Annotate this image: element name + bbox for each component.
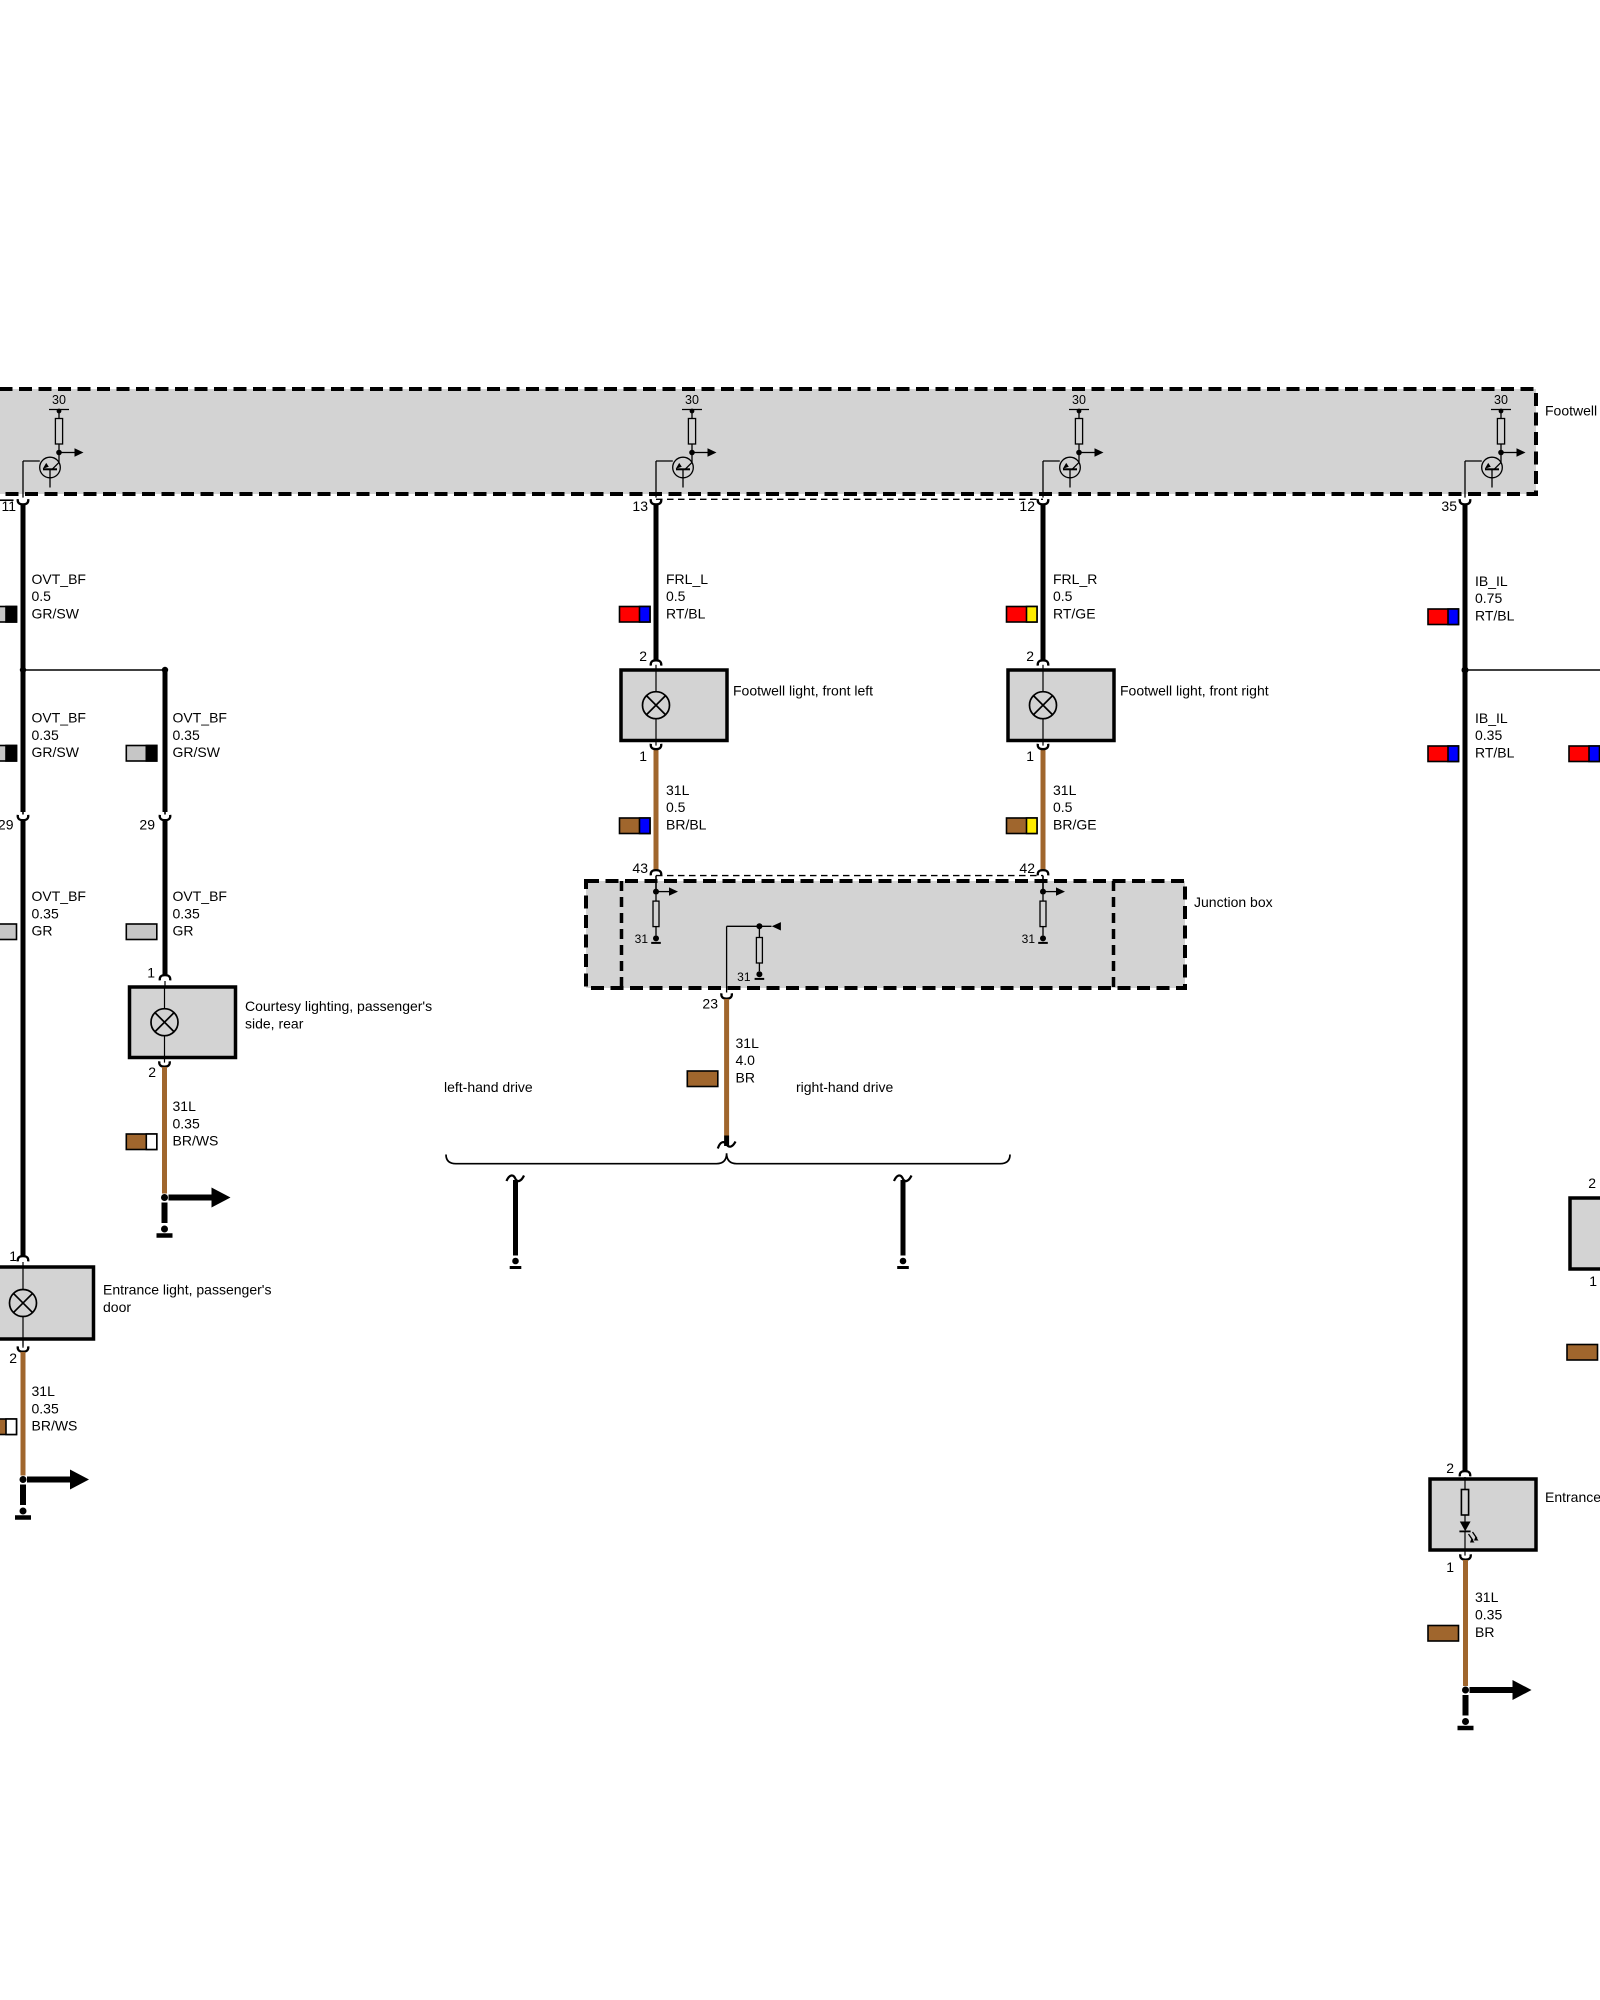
svg-text:1: 1 bbox=[9, 1248, 17, 1264]
svg-text:IB_IL: IB_IL bbox=[1475, 710, 1508, 726]
svg-text:31L: 31L bbox=[1053, 782, 1077, 798]
svg-text:4.0: 4.0 bbox=[736, 1052, 756, 1068]
svg-text:GR/SW: GR/SW bbox=[32, 744, 80, 760]
svg-text:2: 2 bbox=[639, 648, 647, 664]
svg-text:0.35: 0.35 bbox=[32, 905, 59, 921]
svg-text:0.5: 0.5 bbox=[1053, 799, 1073, 815]
svg-text:GR/SW: GR/SW bbox=[173, 744, 221, 760]
svg-text:0.35: 0.35 bbox=[173, 905, 200, 921]
svg-text:29: 29 bbox=[139, 817, 155, 833]
svg-text:31: 31 bbox=[737, 970, 751, 984]
svg-text:FRL_R: FRL_R bbox=[1053, 571, 1097, 587]
svg-text:Junction box: Junction box bbox=[1194, 894, 1273, 910]
svg-text:side, rear: side, rear bbox=[245, 1016, 304, 1032]
svg-text:30: 30 bbox=[1494, 393, 1508, 407]
svg-text:OVT_BF: OVT_BF bbox=[32, 571, 86, 587]
svg-text:left-hand drive: left-hand drive bbox=[444, 1079, 533, 1095]
svg-text:OVT_BF: OVT_BF bbox=[32, 710, 86, 726]
svg-text:31L: 31L bbox=[173, 1098, 197, 1114]
svg-text:31L: 31L bbox=[736, 1035, 760, 1051]
svg-text:IB_IL: IB_IL bbox=[1475, 573, 1508, 589]
svg-text:31L: 31L bbox=[666, 782, 690, 798]
svg-text:1: 1 bbox=[1026, 748, 1034, 764]
svg-text:31: 31 bbox=[635, 932, 649, 946]
svg-text:1: 1 bbox=[147, 965, 155, 981]
svg-text:2: 2 bbox=[1446, 1460, 1454, 1476]
svg-text:Footwell module: Footwell module bbox=[1545, 403, 1600, 419]
svg-text:Entrance light, passenger's: Entrance light, passenger's bbox=[103, 1282, 271, 1298]
svg-text:29: 29 bbox=[0, 817, 14, 833]
svg-text:35: 35 bbox=[1441, 498, 1457, 514]
svg-text:1: 1 bbox=[1446, 1559, 1454, 1575]
svg-text:OVT_BF: OVT_BF bbox=[173, 710, 227, 726]
svg-text:Entrance light, driver's door: Entrance light, driver's door bbox=[1545, 1489, 1600, 1505]
svg-text:43: 43 bbox=[632, 860, 648, 876]
svg-text:1: 1 bbox=[639, 748, 647, 764]
svg-text:2: 2 bbox=[1026, 648, 1034, 664]
svg-text:31: 31 bbox=[1022, 932, 1036, 946]
svg-text:BR/BL: BR/BL bbox=[666, 817, 707, 833]
svg-text:Footwell light, front right: Footwell light, front right bbox=[1120, 683, 1269, 699]
svg-text:BR/GE: BR/GE bbox=[1053, 817, 1097, 833]
svg-text:BR: BR bbox=[736, 1070, 755, 1086]
svg-text:RT/BL: RT/BL bbox=[666, 606, 706, 622]
svg-text:0.5: 0.5 bbox=[32, 588, 52, 604]
svg-text:0.75: 0.75 bbox=[1475, 590, 1502, 606]
svg-text:GR: GR bbox=[173, 923, 194, 939]
svg-text:GR/SW: GR/SW bbox=[32, 606, 80, 622]
svg-text:42: 42 bbox=[1019, 860, 1035, 876]
svg-text:2: 2 bbox=[148, 1064, 156, 1080]
svg-text:23: 23 bbox=[702, 996, 718, 1012]
svg-text:0.5: 0.5 bbox=[666, 588, 686, 604]
svg-text:OVT_BF: OVT_BF bbox=[32, 888, 86, 904]
svg-text:31L: 31L bbox=[1475, 1589, 1499, 1605]
svg-text:BR/WS: BR/WS bbox=[173, 1133, 219, 1149]
svg-text:30: 30 bbox=[52, 393, 66, 407]
svg-text:right-hand drive: right-hand drive bbox=[796, 1079, 893, 1095]
svg-text:RT/BL: RT/BL bbox=[1475, 745, 1515, 761]
svg-text:0.35: 0.35 bbox=[1475, 727, 1502, 743]
svg-text:Courtesy lighting, passenger's: Courtesy lighting, passenger's bbox=[245, 998, 432, 1014]
svg-text:2: 2 bbox=[1588, 1175, 1596, 1191]
svg-text:OVT_BF: OVT_BF bbox=[173, 888, 227, 904]
svg-text:1: 1 bbox=[1589, 1273, 1597, 1289]
svg-text:0.35: 0.35 bbox=[32, 1400, 59, 1416]
svg-text:Footwell light, front left: Footwell light, front left bbox=[733, 683, 873, 699]
svg-text:0.35: 0.35 bbox=[32, 727, 59, 743]
svg-text:BR: BR bbox=[1475, 1624, 1494, 1640]
svg-text:30: 30 bbox=[1072, 393, 1086, 407]
svg-text:0.5: 0.5 bbox=[666, 799, 686, 815]
svg-text:31L: 31L bbox=[32, 1383, 56, 1399]
svg-text:0.35: 0.35 bbox=[173, 727, 200, 743]
svg-text:12: 12 bbox=[1019, 498, 1035, 514]
svg-text:30: 30 bbox=[685, 393, 699, 407]
svg-text:RT/BL: RT/BL bbox=[1475, 608, 1515, 624]
svg-text:door: door bbox=[103, 1299, 131, 1315]
svg-text:0.35: 0.35 bbox=[1475, 1606, 1502, 1622]
svg-text:RT/GE: RT/GE bbox=[1053, 606, 1096, 622]
svg-text:13: 13 bbox=[632, 498, 648, 514]
svg-text:GR: GR bbox=[32, 923, 53, 939]
svg-text:2: 2 bbox=[9, 1350, 17, 1366]
svg-text:BR/WS: BR/WS bbox=[32, 1418, 78, 1434]
svg-text:0.5: 0.5 bbox=[1053, 588, 1073, 604]
svg-text:0.35: 0.35 bbox=[173, 1115, 200, 1131]
svg-text:FRL_L: FRL_L bbox=[666, 571, 708, 587]
